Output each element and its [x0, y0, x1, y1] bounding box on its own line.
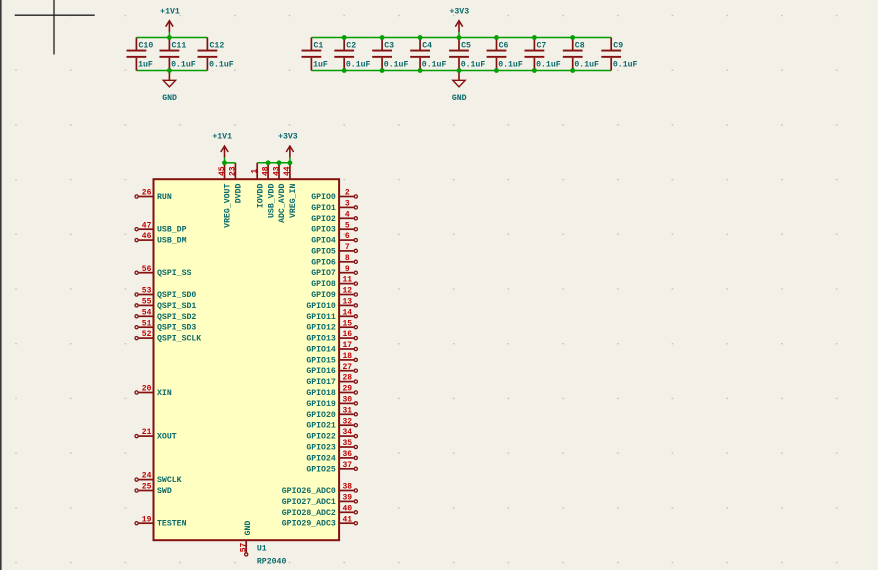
svg-text:GPIO19: GPIO19 [306, 400, 336, 409]
svg-text:1uF: 1uF [138, 60, 153, 69]
svg-text:55: 55 [142, 298, 152, 307]
pin 19 TESTEN [135, 515, 187, 528]
junction [418, 68, 423, 73]
svg-text:11: 11 [342, 276, 352, 285]
svg-text:7: 7 [345, 243, 350, 252]
pin 7 GPIO5 [311, 243, 357, 256]
IC U1 RP2040 body [154, 179, 340, 540]
pin 14 GPIO11 [306, 308, 357, 321]
junction [222, 160, 227, 165]
capacitor C12 [198, 38, 234, 71]
svg-text:+1V1: +1V1 [212, 133, 232, 142]
junction [494, 68, 499, 73]
pin 17 GPIO14 [306, 341, 357, 354]
pin 12 GPIO9 [311, 287, 357, 300]
pin 32 GPIO21 [306, 417, 357, 430]
junction [266, 160, 271, 165]
pin 1 IOVDD [251, 163, 266, 208]
svg-text:27: 27 [342, 363, 352, 372]
svg-text:SWCLK: SWCLK [157, 476, 182, 485]
junction [570, 35, 575, 40]
svg-text:14: 14 [342, 308, 352, 317]
capacitor C10 [127, 38, 154, 71]
pin 4 GPIO2 [311, 210, 357, 223]
pin 31 GPIO20 [306, 406, 357, 419]
svg-text:3: 3 [345, 200, 350, 209]
pin 35 GPIO23 [306, 439, 357, 452]
svg-text:C7: C7 [537, 41, 547, 50]
pin 6 GPIO4 [311, 232, 357, 245]
svg-text:12: 12 [342, 287, 352, 296]
svg-text:C8: C8 [575, 41, 585, 50]
junction [167, 35, 172, 40]
capacitor C6 [487, 38, 523, 71]
svg-text:23: 23 [229, 166, 238, 176]
pin 37 GPIO25 [306, 461, 357, 474]
svg-text:GPIO21: GPIO21 [306, 422, 336, 431]
svg-text:GPIO20: GPIO20 [306, 411, 336, 420]
svg-text:C10: C10 [139, 41, 154, 50]
capacitor C3 [372, 38, 408, 71]
capacitor C5 [449, 38, 485, 71]
svg-text:17: 17 [342, 341, 352, 350]
svg-text:16: 16 [342, 330, 352, 339]
wire [225, 162, 236, 164]
svg-text:1uF: 1uF [313, 60, 328, 69]
svg-text:GND: GND [244, 521, 253, 536]
svg-text:QSPI_SD2: QSPI_SD2 [157, 313, 196, 322]
svg-text:0.1uF: 0.1uF [171, 60, 196, 69]
svg-text:26: 26 [142, 189, 152, 198]
svg-text:C11: C11 [172, 41, 187, 50]
svg-text:5: 5 [345, 221, 350, 230]
svg-text:56: 56 [142, 265, 152, 274]
svg-text:GPIO23: GPIO23 [306, 444, 336, 453]
svg-text:32: 32 [342, 417, 352, 426]
pin 47 USB_DP [135, 221, 187, 234]
svg-text:31: 31 [342, 406, 352, 415]
svg-text:GPIO9: GPIO9 [311, 291, 336, 300]
svg-text:USB_DP: USB_DP [157, 226, 187, 235]
svg-text:GPIO1: GPIO1 [311, 204, 336, 213]
svg-text:57: 57 [240, 543, 249, 553]
pin 9 GPIO7 [311, 265, 357, 278]
svg-text:GPIO13: GPIO13 [306, 335, 336, 344]
pin 44 VREG_IN [283, 163, 298, 218]
svg-text:GPIO4: GPIO4 [311, 237, 336, 246]
capacitor C11 [160, 38, 196, 71]
wire [136, 70, 207, 72]
svg-text:0.1uF: 0.1uF [613, 60, 638, 69]
svg-text:C3: C3 [384, 41, 394, 50]
svg-text:46: 46 [142, 232, 152, 241]
svg-text:GPIO8: GPIO8 [311, 280, 336, 289]
svg-text:GPIO25: GPIO25 [306, 465, 336, 474]
svg-text:52: 52 [142, 330, 152, 339]
capacitor C4 [410, 38, 446, 71]
junction [167, 68, 172, 73]
svg-text:+1V1: +1V1 [160, 7, 180, 16]
junction [457, 68, 462, 73]
ground [452, 71, 467, 103]
svg-text:GPIO0: GPIO0 [311, 193, 336, 202]
pin 3 GPIO1 [311, 200, 357, 213]
junction [532, 68, 537, 73]
svg-text:GPIO14: GPIO14 [306, 346, 336, 355]
svg-text:SWD: SWD [157, 487, 172, 496]
svg-text:0.1uF: 0.1uF [422, 60, 447, 69]
svg-text:U1: U1 [257, 545, 267, 554]
svg-text:GPIO11: GPIO11 [306, 313, 336, 322]
pin 45 VREG_VOUT [218, 163, 233, 228]
pin 13 GPIO10 [306, 298, 357, 311]
wire [311, 70, 611, 72]
svg-text:+3V3: +3V3 [449, 7, 469, 16]
pin 16 GPIO13 [306, 330, 357, 343]
svg-text:IOVDD: IOVDD [256, 184, 265, 209]
svg-text:29: 29 [342, 385, 352, 394]
svg-text:GPIO6: GPIO6 [311, 258, 336, 267]
pin 18 GPIO15 [306, 352, 357, 365]
svg-text:0.1uF: 0.1uF [574, 60, 599, 69]
svg-text:35: 35 [342, 439, 352, 448]
pin 52 QSPI_SCLK [135, 330, 201, 343]
svg-text:TESTEN: TESTEN [157, 520, 187, 529]
wire [257, 162, 290, 164]
svg-text:15: 15 [342, 319, 352, 328]
pin 24 SWCLK [135, 472, 182, 485]
svg-text:C4: C4 [422, 41, 432, 50]
svg-text:C2: C2 [346, 41, 356, 50]
svg-text:USB_VDD: USB_VDD [267, 184, 276, 218]
svg-text:GPIO12: GPIO12 [306, 324, 336, 333]
svg-text:1: 1 [251, 169, 260, 174]
svg-text:GPIO22: GPIO22 [306, 433, 336, 442]
svg-text:GPIO28_ADC2: GPIO28_ADC2 [282, 509, 336, 518]
junction [380, 35, 385, 40]
power symbol +3V3 [278, 133, 298, 163]
pin 5 GPIO3 [311, 221, 357, 234]
pin 36 GPIO24 [306, 450, 357, 463]
svg-text:21: 21 [142, 428, 152, 437]
svg-text:+3V3: +3V3 [278, 133, 298, 142]
svg-text:0.1uF: 0.1uF [384, 60, 409, 69]
svg-text:ADC_AVDD: ADC_AVDD [278, 184, 287, 223]
junction [342, 68, 347, 73]
svg-text:38: 38 [342, 483, 352, 492]
junction [288, 160, 293, 165]
svg-text:25: 25 [142, 483, 152, 492]
svg-text:QSPI_SS: QSPI_SS [157, 269, 191, 278]
power symbol +1V1 [212, 133, 232, 163]
svg-text:GPIO2: GPIO2 [311, 215, 336, 224]
svg-text:QSPI_SD3: QSPI_SD3 [157, 324, 196, 333]
pin 2 GPIO0 [311, 189, 357, 202]
svg-text:VREG_IN: VREG_IN [289, 184, 298, 218]
svg-text:20: 20 [142, 385, 152, 394]
pin 21 XOUT [135, 428, 177, 441]
svg-text:C9: C9 [613, 41, 623, 50]
svg-text:48: 48 [261, 166, 270, 176]
svg-text:41: 41 [342, 515, 352, 524]
svg-text:GPIO16: GPIO16 [306, 367, 336, 376]
svg-text:GPIO7: GPIO7 [311, 269, 336, 278]
svg-text:45: 45 [218, 166, 227, 176]
svg-text:QSPI_SCLK: QSPI_SCLK [157, 335, 201, 344]
sheet left edge [0, 0, 2, 570]
capacitor C1 [302, 38, 328, 71]
svg-text:GPIO10: GPIO10 [306, 302, 336, 311]
junction [532, 35, 537, 40]
svg-text:0.1uF: 0.1uF [498, 60, 523, 69]
svg-text:30: 30 [342, 396, 352, 405]
pin 41 GPIO29_ADC3 [282, 515, 358, 528]
pin 53 QSPI_SD0 [135, 287, 196, 300]
svg-text:GPIO3: GPIO3 [311, 226, 336, 235]
pin 55 QSPI_SD1 [135, 298, 196, 311]
wire [136, 37, 207, 39]
svg-text:6: 6 [345, 232, 350, 241]
svg-text:4: 4 [345, 210, 350, 219]
svg-text:VREG_VOUT: VREG_VOUT [224, 184, 233, 228]
pin 8 GPIO6 [311, 254, 357, 267]
junction [342, 35, 347, 40]
svg-text:0.1uF: 0.1uF [536, 60, 561, 69]
svg-text:GPIO5: GPIO5 [311, 247, 336, 256]
pin 28 GPIO17 [306, 374, 357, 387]
svg-text:39: 39 [342, 494, 352, 503]
svg-text:QSPI_SD1: QSPI_SD1 [157, 302, 196, 311]
pin 39 GPIO27_ADC1 [282, 494, 358, 507]
svg-text:40: 40 [342, 504, 352, 513]
ground [162, 71, 177, 103]
svg-text:18: 18 [342, 352, 352, 361]
sheet origin crosshair [15, 0, 95, 55]
pin 30 GPIO19 [306, 396, 357, 409]
pin 43 ADC_AVDD [272, 163, 287, 223]
junction [380, 68, 385, 73]
svg-text:36: 36 [342, 450, 352, 459]
svg-text:C1: C1 [314, 41, 324, 50]
svg-text:GPIO29_ADC3: GPIO29_ADC3 [282, 520, 336, 529]
svg-text:DVDD: DVDD [235, 184, 244, 204]
svg-text:0.1uF: 0.1uF [346, 60, 371, 69]
svg-text:GPIO18: GPIO18 [306, 389, 336, 398]
svg-text:RP2040: RP2040 [257, 557, 287, 566]
svg-text:GPIO17: GPIO17 [306, 378, 336, 387]
junction [277, 160, 282, 165]
capacitor C2 [334, 38, 370, 71]
svg-text:0.1uF: 0.1uF [461, 60, 486, 69]
pin 26 RUN [135, 189, 172, 202]
power symbol +3V3 [449, 7, 469, 37]
svg-text:28: 28 [342, 374, 352, 383]
pin 54 QSPI_SD2 [135, 308, 196, 321]
svg-text:GPIO15: GPIO15 [306, 356, 336, 365]
svg-text:54: 54 [142, 308, 152, 317]
svg-text:C5: C5 [461, 41, 471, 50]
pin 34 GPIO22 [306, 428, 357, 441]
svg-text:37: 37 [342, 461, 352, 470]
svg-text:9: 9 [345, 265, 350, 274]
svg-text:GPIO26_ADC0: GPIO26_ADC0 [282, 487, 336, 496]
power symbol +1V1 [160, 7, 180, 37]
svg-text:53: 53 [142, 287, 152, 296]
svg-text:8: 8 [345, 254, 350, 263]
pin 40 GPIO28_ADC2 [282, 504, 358, 517]
svg-text:34: 34 [342, 428, 352, 437]
svg-text:RUN: RUN [157, 193, 172, 202]
svg-text:XIN: XIN [157, 389, 172, 398]
pin 20 XIN [135, 385, 172, 398]
capacitor C8 [563, 38, 599, 71]
svg-text:0.1uF: 0.1uF [209, 60, 234, 69]
svg-text:QSPI_SD0: QSPI_SD0 [157, 291, 196, 300]
svg-text:GPIO24: GPIO24 [306, 454, 336, 463]
svg-text:51: 51 [142, 319, 152, 328]
pin 57 GND [240, 521, 253, 556]
svg-text:47: 47 [142, 221, 152, 230]
pin 29 GPIO18 [306, 385, 357, 398]
pin 25 SWD [135, 483, 172, 496]
svg-text:GND: GND [162, 94, 177, 103]
svg-text:C12: C12 [210, 41, 225, 50]
pin 51 QSPI_SD3 [135, 319, 196, 332]
junction [570, 68, 575, 73]
pin 11 GPIO8 [311, 276, 357, 289]
wire [311, 37, 611, 39]
pin 27 GPIO16 [306, 363, 357, 376]
svg-text:2: 2 [345, 189, 350, 198]
junction [494, 35, 499, 40]
pin 23 DVDD [229, 163, 244, 203]
pin 46 USB_DM [135, 232, 187, 245]
junction [418, 35, 423, 40]
svg-text:43: 43 [272, 166, 281, 176]
svg-text:USB_DM: USB_DM [157, 237, 187, 246]
svg-text:C6: C6 [499, 41, 509, 50]
pin 48 USB_VDD [261, 163, 276, 218]
svg-text:GPIO27_ADC1: GPIO27_ADC1 [282, 498, 336, 507]
pin 15 GPIO12 [306, 319, 357, 332]
svg-text:XOUT: XOUT [157, 433, 177, 442]
svg-text:19: 19 [142, 515, 152, 524]
capacitor C7 [525, 38, 561, 71]
svg-text:44: 44 [283, 166, 292, 176]
junction [457, 35, 462, 40]
svg-text:13: 13 [342, 298, 352, 307]
capacitor C9 [601, 38, 637, 71]
svg-text:GND: GND [452, 94, 467, 103]
pin 38 GPIO26_ADC0 [282, 483, 358, 496]
pin 56 QSPI_SS [135, 265, 191, 278]
svg-text:24: 24 [142, 472, 152, 481]
